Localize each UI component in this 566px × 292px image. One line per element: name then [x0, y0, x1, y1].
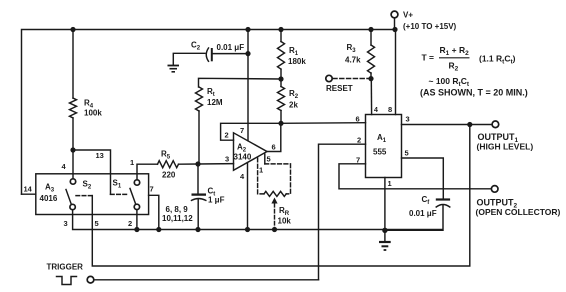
wire control node to pin 13 — [70, 147, 110, 194]
resistor R3 4.7k — [368, 30, 375, 82]
label 555 pin 7 — [356, 156, 360, 165]
svg-text:V+: V+ — [403, 11, 413, 20]
wire pin 13 dashes to S1 arm — [111, 193, 129, 195]
svg-text:3: 3 — [225, 155, 229, 164]
terminal RESET — [326, 75, 369, 81]
wire 4016 pin 14 — [22, 193, 36, 195]
svg-text:5: 5 — [267, 155, 271, 164]
label pin 2 — [128, 219, 132, 228]
IC A1 555 box — [366, 115, 402, 178]
svg-text:8: 8 — [388, 105, 392, 114]
wire 4016 pin 4 lead — [72, 150, 74, 179]
label 555 pin 1 — [388, 179, 392, 188]
label 555 pin 6 — [356, 115, 360, 124]
wire feedback node to 555 pin 6 — [281, 122, 366, 125]
svg-text:4016: 4016 — [40, 194, 58, 203]
resistor R2 2k — [278, 79, 285, 126]
label op-amp pin 7 — [240, 126, 244, 135]
svg-text:1: 1 — [388, 179, 392, 188]
label op-amp pin 3 — [225, 155, 229, 164]
label RESET — [326, 84, 353, 93]
label op-amp pin 6 — [272, 143, 276, 152]
potentiometer RR 10k — [264, 191, 286, 232]
svg-text:7: 7 — [150, 185, 154, 194]
wire 555 pin 4 lead — [370, 79, 372, 115]
wire op-amp pin 3 input — [198, 163, 234, 165]
wire 555 pin 8 lead — [395, 30, 397, 115]
label R3 4.7k — [345, 43, 361, 65]
wire 555 pin 5 to Cf — [402, 158, 444, 199]
wire op-amp pin 5 stub — [264, 154, 266, 164]
svg-text:5: 5 — [95, 219, 99, 228]
capacitor Ct — [192, 164, 207, 232]
label op-amp pin 4 — [240, 172, 245, 181]
label 555 pin 2 — [357, 136, 361, 145]
resistor R1 180k — [278, 30, 285, 82]
label 555 pin 5 — [405, 149, 409, 158]
label S2 — [83, 180, 92, 191]
svg-text:2k: 2k — [289, 101, 298, 110]
svg-text:10k: 10k — [278, 217, 292, 226]
label 555 pin 8 — [388, 105, 392, 114]
resistor Rt 12M — [195, 78, 281, 166]
label R1 180k — [288, 46, 306, 66]
svg-text:2: 2 — [357, 136, 361, 145]
wire 4016 pin 3 lead and ground bus — [73, 210, 442, 230]
svg-text:T =: T = — [422, 53, 435, 63]
label A1 555 — [373, 133, 387, 157]
label 555 pin 4 — [374, 107, 378, 114]
svg-text:2: 2 — [225, 131, 229, 140]
svg-text:(AS SHOWN, T = 20 MIN.): (AS SHOWN, T = 20 MIN.) — [420, 88, 528, 98]
svg-text:(HIGH LEVEL): (HIGH LEVEL) — [477, 142, 534, 152]
label C2 0.01uF — [191, 41, 244, 53]
terminal TRIGGER — [87, 276, 94, 283]
svg-text:(+10 TO +15V): (+10 TO +15V) — [403, 22, 457, 31]
svg-text:7: 7 — [356, 156, 360, 165]
wire op-amp pin 7 supply — [247, 30, 249, 141]
wire 4016 pin 2 lead — [134, 210, 139, 232]
svg-text:14: 14 — [24, 185, 33, 194]
wire 4016 pin 7 to ground bus — [149, 195, 162, 232]
wire pin 5 feedback from OUTPUT1 — [92, 125, 470, 267]
label 555 pin 3 — [406, 115, 410, 124]
IC A3 4016 box — [36, 174, 149, 215]
wire op-amp pin 2 input — [221, 123, 281, 140]
resistor R5 220 — [158, 161, 199, 168]
wire gang dash S2 to pin 5 — [76, 195, 92, 197]
label pin 13 — [96, 151, 104, 160]
label Cf 0.01uF — [409, 195, 437, 218]
label RR 10k — [278, 206, 292, 226]
wire 555 pin 7 to OUTPUT2 — [339, 164, 491, 189]
wire op-amp pin 6 output feedback — [267, 123, 281, 151]
trigger pulse symbol — [57, 277, 77, 285]
label op-amp pin 1 — [259, 166, 263, 175]
label Rt 12M — [207, 87, 223, 107]
label S1 — [113, 179, 122, 190]
label pins 6,8,9,10,11,12 — [162, 205, 193, 223]
svg-text:0.01 μF: 0.01 μF — [409, 209, 437, 218]
svg-text:6, 8, 9: 6, 8, 9 — [166, 205, 189, 214]
svg-text:2: 2 — [128, 219, 132, 228]
label timing formula — [420, 45, 528, 98]
terminal OUTPUT2 — [491, 186, 498, 193]
svg-text:10,11,12: 10,11,12 — [162, 214, 193, 223]
ground main — [379, 228, 391, 250]
svg-text:220: 220 — [162, 171, 176, 180]
svg-text:(OPEN COLLECTOR): (OPEN COLLECTOR) — [476, 207, 561, 217]
capacitor C2 — [173, 48, 250, 65]
svg-text:0.01 μF: 0.01 μF — [217, 43, 245, 52]
label R4 100k — [84, 99, 102, 118]
label R2 2k — [289, 89, 299, 110]
wire V+ top rail — [22, 30, 396, 195]
wire op-amp pin 4 supply — [245, 163, 250, 232]
switch S1 — [130, 180, 140, 210]
resistor R4 — [70, 30, 77, 151]
label pin 3 — [64, 219, 68, 228]
label pin 5 — [95, 219, 99, 228]
svg-text:12M: 12M — [207, 98, 223, 107]
svg-text:TRIGGER: TRIGGER — [47, 263, 84, 272]
wire 4016 pin 1 to R5 — [137, 164, 158, 180]
svg-text:6: 6 — [272, 143, 276, 152]
svg-text:13: 13 — [96, 151, 104, 160]
svg-text:555: 555 — [373, 148, 387, 157]
label V+ — [403, 11, 457, 32]
wire 555 pin 3 to OUTPUT1 — [402, 122, 493, 127]
terminal OUTPUT1 — [492, 121, 499, 128]
switch S2 — [66, 179, 76, 210]
terminal V+ — [391, 11, 398, 29]
label OUTPUT1 high level — [477, 132, 534, 152]
svg-text:RESET: RESET — [326, 84, 353, 93]
svg-text:3: 3 — [64, 219, 68, 228]
svg-text:1: 1 — [130, 158, 134, 167]
svg-text:4: 4 — [374, 107, 378, 114]
svg-text:3: 3 — [406, 115, 410, 124]
svg-text:1 μF: 1 μF — [208, 196, 225, 205]
node rail junction dots — [70, 27, 397, 32]
label op-amp pin 5 — [267, 155, 271, 164]
svg-text:5: 5 — [405, 149, 409, 158]
wire trigger line — [94, 279, 319, 281]
label A2 3140 — [234, 143, 252, 162]
svg-text:180k: 180k — [288, 57, 306, 66]
label pin 4 — [62, 162, 67, 171]
svg-text:100k: 100k — [84, 109, 102, 118]
capacitor Cf — [385, 200, 450, 231]
wire 555 pin 2 trigger — [319, 144, 366, 280]
svg-text:7: 7 — [240, 126, 244, 135]
svg-text:1: 1 — [259, 166, 263, 175]
label op-amp pin 2 — [225, 131, 229, 140]
svg-text:3140: 3140 — [234, 153, 252, 162]
ground C2 — [168, 66, 180, 72]
svg-text:4.7k: 4.7k — [345, 56, 361, 65]
label Ct 1uF — [208, 187, 225, 205]
label TRIGGER — [47, 263, 84, 272]
label R5 220 — [161, 150, 176, 180]
label OUTPUT2 open collector — [476, 198, 561, 218]
wire offset-null dashed box — [258, 158, 291, 194]
op-amp U A2 3140 triangle — [234, 133, 268, 171]
label pin 7 — [150, 185, 154, 194]
svg-text:6: 6 — [356, 115, 360, 124]
label A3 4016 — [40, 183, 58, 204]
wire 555 pin 1 ground lead — [384, 178, 386, 231]
label pin 14 — [24, 185, 33, 194]
label pin 1 — [130, 158, 134, 167]
